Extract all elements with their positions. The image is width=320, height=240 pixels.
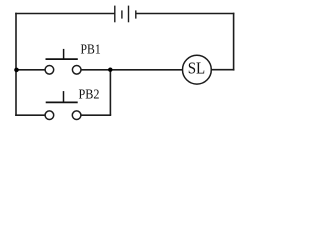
battery B: first short plate xyxy=(121,10,123,18)
wire PB2 left lead xyxy=(15,114,45,116)
node A (junction dot on left rail) xyxy=(14,68,19,73)
node B (junction dot PB1/PB2 join) xyxy=(108,68,112,72)
pushbutton PB2: actuator bar xyxy=(46,101,78,103)
wire PB1 left lead xyxy=(15,69,45,71)
pushbutton PB1: left contact circle xyxy=(45,66,54,75)
wire lamp right lead xyxy=(211,69,234,71)
pushbutton PB2: right contact circle xyxy=(72,111,81,120)
wire top-right (battery to right corner) xyxy=(136,13,235,15)
wire left vertical xyxy=(15,13,17,116)
wire PB2 right lead xyxy=(81,114,111,116)
svg-text:PB1: PB1 xyxy=(81,42,101,57)
pushbutton PB2: actuator stem xyxy=(63,91,65,102)
pushbutton PB2: left contact circle xyxy=(45,111,54,120)
pushbutton PB1: right contact circle xyxy=(72,66,81,75)
svg-text:SL: SL xyxy=(188,59,206,78)
battery B: second long plate xyxy=(128,6,130,23)
wire top-left (battery to left corner) xyxy=(15,13,115,15)
wire PB1 right lead to lamp (through node) xyxy=(81,69,182,71)
pushbutton PB1: actuator stem xyxy=(63,49,65,59)
pushbutton PB1: actuator bar xyxy=(46,58,78,60)
battery B: left long plate xyxy=(114,6,116,23)
battery B: right short plate xyxy=(135,10,137,18)
lamp SL: bulb circle xyxy=(183,55,212,84)
wire right vertical (down to lamp row) xyxy=(233,13,235,71)
wire middle vertical (node to PB2 right corner) xyxy=(109,70,111,115)
svg-text:PB2: PB2 xyxy=(79,86,100,101)
